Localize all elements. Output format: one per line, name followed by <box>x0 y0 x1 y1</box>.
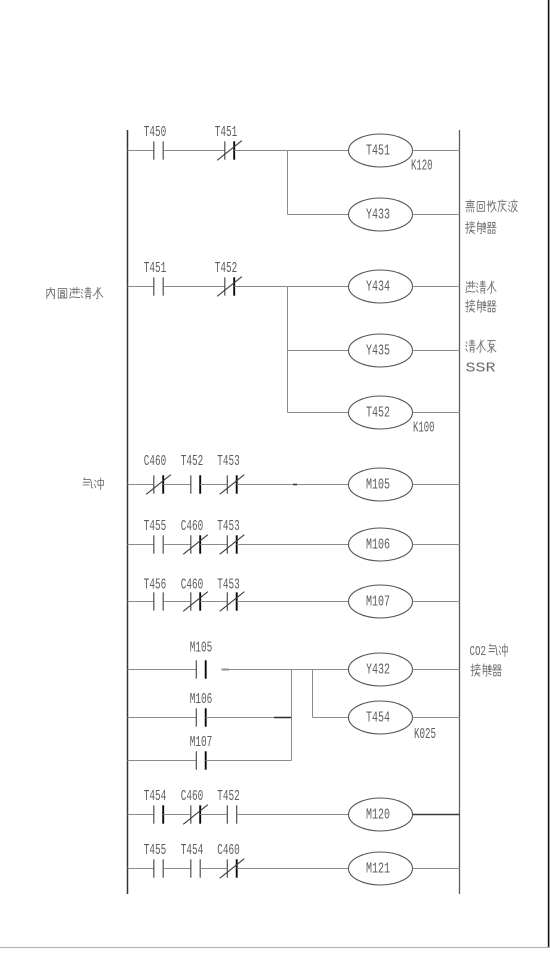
svg-text:T454: T454 <box>144 789 167 805</box>
window right edge line <box>548 0 550 947</box>
contact C460 (NC) <box>183 535 208 555</box>
svg-text:T455: T455 <box>144 519 167 535</box>
note 接触器 line2 <box>466 221 497 233</box>
contact C460 (NC) <box>146 475 171 495</box>
wire rung10 rail to T455 <box>128 868 154 870</box>
wire rung5 T453 to coil <box>237 601 349 603</box>
wire rung9 T452 to coil <box>237 814 349 816</box>
wire M106 dark dash <box>274 717 291 719</box>
svg-text:T454: T454 <box>366 711 390 727</box>
svg-text:M120: M120 <box>366 808 390 824</box>
svg-text:T452: T452 <box>215 261 238 277</box>
coil Y435 <box>349 334 413 367</box>
svg-text:M106: M106 <box>366 538 390 554</box>
svg-text:C460: C460 <box>181 519 204 535</box>
svg-text:T452: T452 <box>181 454 204 470</box>
wire Y433 to right rail <box>413 214 460 216</box>
wire rung5 rail to T456 <box>128 601 154 603</box>
wire bus to Y432 coil <box>292 669 349 671</box>
svg-text:T456: T456 <box>144 578 167 594</box>
wire rung3 T452-T453 <box>200 484 227 486</box>
wire collector bus vertical <box>291 670 293 761</box>
contact C460 (NC) r5 <box>183 592 208 612</box>
svg-text:T453: T453 <box>217 519 240 535</box>
wire T452 coil to right rail <box>413 412 460 414</box>
contact T451 (NC) <box>217 141 242 161</box>
wire rung10 T455-T454 <box>163 868 191 870</box>
note 气冲 right <box>489 644 508 657</box>
wire M106 rail lead <box>128 717 197 719</box>
wire rung10 C460 to coil <box>237 868 349 870</box>
coil T452 <box>349 396 413 429</box>
right power rail <box>459 130 461 894</box>
svg-text:T455: T455 <box>144 843 167 859</box>
wire branch down to Y433 <box>287 151 289 215</box>
svg-text:Y434: Y434 <box>366 280 390 296</box>
contact T451 (NO) <box>154 277 163 295</box>
wire rung5 coil to right rail <box>413 601 460 603</box>
coil Y433 <box>349 198 413 231</box>
svg-text:Y433: Y433 <box>366 208 390 224</box>
svg-text:M106: M106 <box>190 692 213 708</box>
wire rung4 T453 to coil <box>237 544 349 546</box>
svg-text:M121: M121 <box>366 862 390 878</box>
coil Y432 <box>349 653 413 686</box>
coil M106 <box>349 528 413 561</box>
contact T452 (NO) <box>191 475 200 493</box>
wire rung9 coil to right rail <box>413 814 460 816</box>
note 接触器 (3) <box>471 664 502 676</box>
wire rung5 T456-C460 <box>163 601 191 603</box>
wire rung5 C460-T453 <box>200 601 227 603</box>
contact T453 (NC) <box>220 475 245 495</box>
wire branch down rung2 <box>287 287 289 413</box>
contact T453 (NC) r5 <box>220 592 245 612</box>
wire rung10 T454-C460 <box>200 868 227 870</box>
note 进清水 <box>466 281 496 294</box>
svg-text:T451: T451 <box>215 125 238 141</box>
svg-text:M105: M105 <box>190 641 213 657</box>
wire M107 to bus <box>206 760 292 762</box>
wire rung2 rail to T451 <box>128 286 154 288</box>
svg-text:T451: T451 <box>366 144 390 160</box>
svg-text:T454: T454 <box>181 843 204 859</box>
coil M105 <box>349 468 413 501</box>
note 气冲 <box>83 478 103 490</box>
wire M105 to bus <box>222 669 292 671</box>
contact T453 (NC) r4 <box>220 535 245 555</box>
svg-text:CO2: CO2 <box>470 645 487 660</box>
contact M106 (NO) <box>196 708 205 726</box>
wire rung3 rail to C460 <box>128 484 154 486</box>
wire rung2 T451 to T452 <box>163 286 225 288</box>
wire rung4 C460-T453 <box>200 544 227 546</box>
svg-text:Y432: Y432 <box>366 663 390 679</box>
coil Y434 <box>349 270 413 303</box>
wire rung1 rail to T450 <box>128 150 154 152</box>
coil M120 <box>349 798 413 831</box>
junction dash rung3 <box>293 484 297 486</box>
wire rung10 coil to right rail <box>413 868 460 870</box>
wire rung4 rail to T455 <box>128 544 154 546</box>
note 内圆进清水 <box>47 287 103 298</box>
svg-text:M105: M105 <box>366 478 390 494</box>
wire rung1 T450 to T451 <box>163 150 225 152</box>
contact C460 (NC) r9 <box>183 805 208 825</box>
svg-text:K100: K100 <box>413 421 435 437</box>
svg-text:T452: T452 <box>366 406 390 422</box>
wire Y432 to right rail <box>413 669 460 671</box>
contact T455 (NO) r10 <box>154 859 163 877</box>
wire T454 branch horizontal <box>313 717 349 719</box>
svg-text:Y435: Y435 <box>366 344 390 360</box>
contact C460 (NC) r10 <box>220 859 245 879</box>
wire rung9 rail to T454 <box>128 814 154 816</box>
contact T452 (NO) r9 <box>227 805 236 823</box>
contact T454 (NO) <box>154 805 163 823</box>
svg-text:C460: C460 <box>181 578 204 594</box>
note 清水泵 <box>466 340 496 353</box>
wire rung1 coil to right rail <box>413 150 460 152</box>
coil M121 <box>349 852 413 885</box>
wire down to T454 level <box>312 670 314 718</box>
wire rung4 T455-C460 <box>163 544 191 546</box>
wire M107 rail lead <box>128 760 197 762</box>
svg-text:C460: C460 <box>144 454 167 470</box>
note 接触器 (2) <box>466 300 497 312</box>
wire rung9 C460-T452 <box>200 814 227 816</box>
svg-text:T451: T451 <box>144 261 167 277</box>
wire T454 to right rail <box>413 717 460 719</box>
note 需回收废液 line1 <box>466 200 518 213</box>
contact T456 (NO) <box>154 592 163 610</box>
contact T454 (NO) r10 <box>191 859 200 877</box>
svg-text:SSR: SSR <box>466 361 497 377</box>
svg-text:C460: C460 <box>181 789 204 805</box>
wire M106 to bus <box>206 717 292 719</box>
wire rung4 coil to right rail <box>413 544 460 546</box>
coil T451 <box>349 134 413 167</box>
wire T452-coil branch horizontal <box>288 412 349 414</box>
left power rail <box>127 130 129 894</box>
svg-text:T452: T452 <box>217 789 240 805</box>
contact T450 (NO) <box>154 141 163 159</box>
wire Y435 to right rail <box>413 350 460 352</box>
wire rung3 T453 to coil <box>237 484 349 486</box>
svg-text:T450: T450 <box>144 125 167 141</box>
window bottom edge line <box>0 947 550 949</box>
contact T455 (NO) <box>154 535 163 553</box>
coil T454 <box>349 701 413 734</box>
contact M107 (NO) <box>196 751 205 769</box>
svg-text:K025: K025 <box>414 727 436 743</box>
contact M105 (NO) <box>196 660 205 678</box>
contact T452 (NC) <box>217 277 242 297</box>
wire rung2 coil to right rail <box>413 286 460 288</box>
wire rung3 coil to right rail <box>413 484 460 486</box>
wire rung1 T451 to coil <box>234 150 348 152</box>
svg-text:M107: M107 <box>190 735 213 751</box>
wire Y433 branch horizontal <box>288 214 349 216</box>
wire M105 dark dash <box>222 669 230 671</box>
svg-text:T453: T453 <box>217 578 240 594</box>
wire M105 rail lead <box>128 669 197 671</box>
coil M107 <box>349 585 413 618</box>
wire rung2 T452 to coil <box>234 286 348 288</box>
wire rung9 T454-C460 <box>163 814 191 816</box>
svg-text:T453: T453 <box>217 454 240 470</box>
svg-text:K120: K120 <box>411 159 433 175</box>
svg-text:C460: C460 <box>217 843 240 859</box>
svg-text:M107: M107 <box>366 595 390 611</box>
wire rung3 C460-T452 <box>163 484 191 486</box>
wire Y435 branch horizontal <box>288 350 349 352</box>
